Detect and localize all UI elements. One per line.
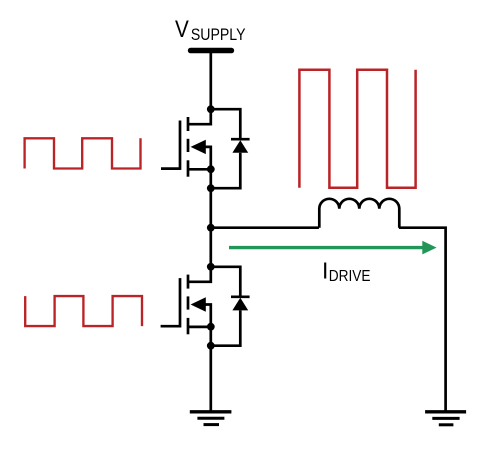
wire D1 junction to mid node bbox=[209, 188, 212, 228]
wire Q2 to ground bbox=[209, 346, 212, 412]
ground left bbox=[190, 412, 232, 425]
node: Q2 drain junction bbox=[207, 263, 215, 271]
red square wave: output voltage waveform bbox=[299, 70, 415, 188]
diode D2 body diode of Q2 bbox=[211, 267, 250, 346]
node: half-bridge output mid node bbox=[207, 224, 215, 232]
svg-text:V: V bbox=[175, 16, 189, 43]
transistor Q2 low-side N-MOSFET bbox=[180, 268, 211, 335]
wire inductor to right rail and down to ground bbox=[399, 228, 446, 412]
wire Q1 source to diode junction bbox=[209, 169, 212, 188]
supply rail bar bbox=[188, 48, 234, 54]
wire supply bar to Q1 drain bbox=[209, 52, 212, 109]
wire mid node to Q2 drain bbox=[209, 228, 212, 267]
node: D1 anode junction bbox=[207, 184, 215, 192]
svg-text:DRIVE: DRIVE bbox=[329, 268, 371, 285]
label V_SUPPLY bbox=[175, 16, 246, 44]
node: Q2 source junction bbox=[207, 323, 215, 331]
green arrow: drive current direction bbox=[229, 241, 437, 255]
red square wave: Q1 gate drive signal bbox=[25, 138, 141, 168]
red square wave: Q2 gate drive signal bbox=[25, 296, 142, 326]
diode D1 body diode of Q1 bbox=[211, 109, 250, 188]
node: D2 anode junction bbox=[207, 342, 215, 350]
wire Q2 source to diode junction bbox=[209, 327, 212, 346]
ground right bbox=[425, 412, 466, 425]
inductor L1 solenoid coil bbox=[319, 199, 399, 228]
node: Q1 source junction bbox=[207, 165, 215, 173]
transistor Q1 high-side N-MOSFET bbox=[180, 110, 211, 177]
svg-text:I: I bbox=[322, 258, 328, 284]
node: Q1 drain junction bbox=[207, 105, 215, 113]
wire mid node to inductor bbox=[211, 226, 319, 229]
wire Q2 gate lead bbox=[161, 325, 180, 328]
svg-text:SUPPLY: SUPPLY bbox=[191, 25, 246, 44]
label I_DRIVE bbox=[322, 258, 371, 286]
wire Q1 gate lead bbox=[161, 167, 180, 170]
